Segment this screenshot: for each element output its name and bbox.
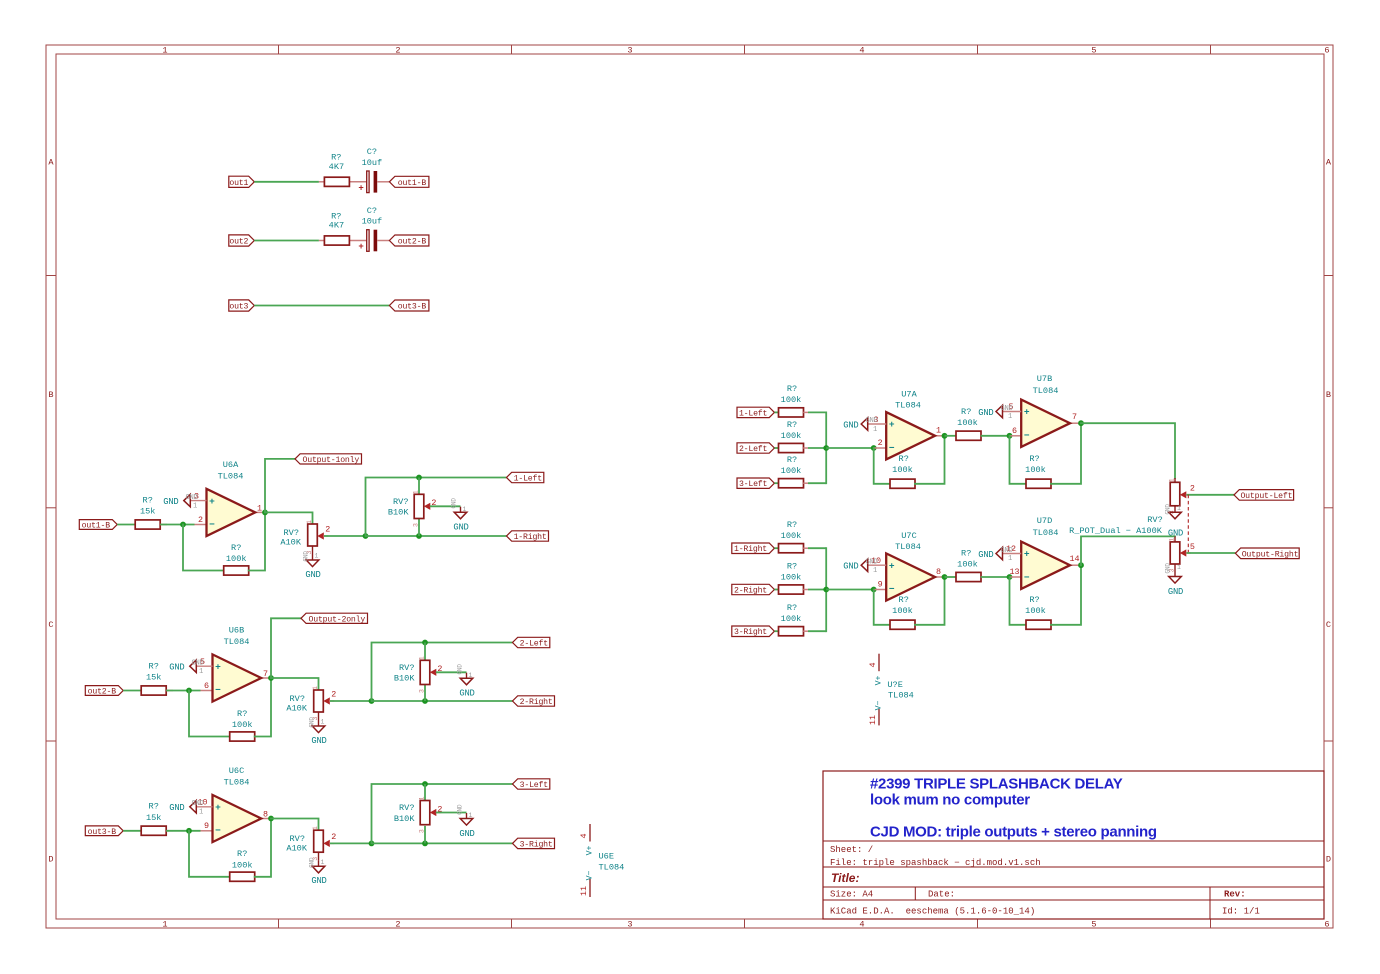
node 1-Left [737, 407, 774, 417]
svg-text:GND: GND [459, 689, 474, 699]
svg-text:−: − [215, 685, 221, 696]
node 3-Right [513, 838, 555, 848]
svg-text:Output-Right: Output-Right [1242, 549, 1299, 559]
node out2-B [389, 235, 429, 246]
svg-text:R?: R? [237, 709, 247, 719]
resistor R? 100k (1-Left input) [779, 384, 809, 417]
svg-text:B10K: B10K [394, 674, 415, 684]
potentiometer RV? B10K (U6A) [388, 478, 437, 537]
svg-text:GND: GND [457, 664, 464, 675]
svg-text:A: A [1326, 158, 1332, 168]
svg-text:GND: GND [311, 876, 326, 886]
svg-text:1: 1 [873, 426, 877, 434]
svg-text:100k: 100k [892, 465, 913, 475]
svg-text:GND: GND [186, 494, 198, 502]
svg-text:1-Right: 1-Right [734, 544, 767, 554]
wire [254, 181, 319, 183]
svg-text:2: 2 [395, 920, 400, 930]
wire [915, 577, 945, 625]
svg-text:GND: GND [1168, 587, 1183, 597]
svg-text:RV?: RV? [1147, 515, 1162, 525]
junction [369, 698, 375, 704]
svg-text:Rev:: Rev: [1224, 890, 1246, 900]
svg-text:GND: GND [192, 660, 204, 668]
resistor R? 15k (U6C input) [141, 802, 173, 836]
wire [271, 618, 301, 678]
wire [265, 459, 295, 513]
wire [425, 642, 513, 644]
wire [324, 535, 366, 537]
junction [416, 533, 422, 539]
svg-text:Output-2only: Output-2only [309, 614, 366, 624]
svg-text:D: D [48, 855, 53, 865]
svg-text:1: 1 [162, 46, 167, 56]
svg-text:GND: GND [843, 420, 858, 430]
svg-text:R?: R? [149, 802, 159, 812]
power GND at U7B + input [978, 405, 1021, 421]
svg-text:C: C [48, 620, 53, 630]
svg-text:−: − [215, 825, 221, 836]
wire [1187, 494, 1235, 496]
svg-text:+: + [358, 183, 363, 193]
wire [330, 700, 372, 702]
wire [945, 435, 957, 437]
wire [1081, 423, 1175, 478]
junction [942, 574, 948, 580]
node out3-B [85, 826, 123, 836]
op-amp U6B TL084 [200, 626, 271, 702]
svg-text:2-Right: 2-Right [734, 586, 767, 596]
svg-text:1: 1 [306, 520, 313, 524]
wire [425, 783, 513, 785]
wire [160, 524, 194, 526]
capacitor C? 10uf (row 1) [358, 147, 389, 193]
junction [1078, 562, 1084, 568]
svg-text:1: 1 [257, 503, 262, 513]
power GND below A10K (U6B) [309, 712, 327, 746]
node Output-Left [1234, 490, 1294, 501]
svg-text:GND: GND [453, 523, 468, 533]
svg-text:100k: 100k [957, 418, 978, 428]
svg-text:−: − [1024, 430, 1030, 441]
svg-text:GND: GND [451, 498, 458, 509]
wire [372, 643, 426, 702]
svg-text:TL084: TL084 [1033, 528, 1059, 538]
svg-text:RV?: RV? [284, 528, 299, 538]
svg-text:R?: R? [237, 849, 247, 859]
svg-text:6: 6 [1324, 920, 1329, 930]
potentiometer RV? A10K (U6A) [280, 520, 330, 555]
svg-text:1: 1 [413, 490, 420, 494]
svg-text:TL084: TL084 [224, 637, 250, 647]
svg-text:100k: 100k [226, 554, 247, 564]
svg-text:#2399 TRIPLE SPLASHBACK DELAY: #2399 TRIPLE SPLASHBACK DELAY [870, 776, 1123, 793]
svg-text:R?: R? [231, 543, 241, 553]
op-amp U7C TL084 [871, 531, 945, 601]
wire [808, 589, 826, 591]
svg-text:GND: GND [305, 570, 320, 580]
svg-text:9: 9 [878, 580, 883, 590]
wire [808, 630, 826, 632]
potentiometer RV? A10K (U6C) [286, 826, 336, 861]
svg-text:1: 1 [419, 796, 426, 800]
junction [871, 587, 877, 593]
svg-text:5: 5 [1091, 920, 1096, 930]
power GND below pot gang 2 [1165, 563, 1184, 597]
wire [117, 524, 135, 526]
svg-text:3: 3 [413, 523, 420, 527]
wire [808, 547, 826, 549]
svg-text:GND: GND [978, 550, 993, 560]
resistor R? 100k (U6B feedback) [230, 709, 255, 741]
svg-text:3-Left: 3-Left [739, 479, 768, 489]
svg-text:4: 4 [579, 833, 589, 838]
svg-text:out3-B: out3-B [88, 828, 117, 837]
svg-text:1: 1 [873, 567, 877, 575]
op-amp power unit U6E TL084 [579, 824, 624, 897]
svg-text:GND: GND [978, 408, 993, 418]
svg-text:RV?: RV? [290, 694, 305, 704]
svg-text:R?: R? [961, 407, 971, 417]
svg-text:2-Left: 2-Left [520, 639, 549, 649]
svg-text:R?: R? [787, 420, 797, 430]
svg-text:TL084: TL084 [599, 862, 625, 872]
svg-text:Id: 1/1: Id: 1/1 [1222, 907, 1260, 917]
wire [775, 589, 779, 591]
svg-text:+: + [1024, 407, 1030, 418]
wire [366, 478, 420, 537]
wire [1051, 423, 1081, 484]
power GND at U6A + input [163, 494, 206, 511]
wire [255, 678, 271, 737]
svg-text:U?E: U?E [887, 680, 902, 690]
wire [874, 448, 890, 484]
svg-text:100k: 100k [892, 606, 913, 616]
svg-text:V−: V− [875, 701, 884, 711]
svg-text:2: 2 [395, 46, 400, 56]
svg-text:Title:: Title: [831, 871, 859, 885]
svg-text:GND: GND [866, 559, 878, 567]
svg-text:out2: out2 [229, 238, 248, 247]
svg-text:GND: GND [311, 736, 326, 746]
svg-text:A10K: A10K [280, 537, 301, 547]
svg-text:Date:: Date: [928, 890, 955, 900]
svg-text:C?: C? [367, 206, 377, 216]
svg-text:100k: 100k [232, 860, 253, 870]
svg-text:A: A [48, 158, 54, 168]
wire [775, 447, 779, 449]
svg-text:TL084: TL084 [895, 401, 921, 411]
wire [1051, 565, 1081, 625]
svg-text:+: + [889, 419, 895, 430]
svg-text:7: 7 [1072, 412, 1077, 422]
svg-text:B10K: B10K [388, 508, 409, 518]
svg-text:R?: R? [1029, 595, 1039, 605]
wire [430, 505, 461, 507]
svg-text:1: 1 [315, 553, 319, 560]
svg-text:1-Right: 1-Right [514, 532, 547, 542]
svg-text:GND: GND [1165, 504, 1172, 515]
svg-text:TL084: TL084 [888, 690, 914, 700]
svg-text:1: 1 [1008, 555, 1012, 563]
svg-text:R?: R? [149, 661, 159, 671]
op-amp U7B TL084 [1008, 374, 1081, 447]
wire [255, 819, 271, 877]
wire [271, 678, 319, 690]
wire [981, 576, 1010, 578]
wire [915, 436, 945, 484]
svg-text:Size: A4: Size: A4 [830, 890, 873, 900]
wire [372, 842, 513, 844]
svg-text:CJD MOD: triple outputs + ster: CJD MOD: triple outputs + stereo panning [870, 824, 1157, 841]
svg-text:GND: GND [459, 829, 474, 839]
junction [363, 533, 369, 539]
svg-text:1: 1 [463, 506, 467, 513]
svg-text:7: 7 [263, 669, 268, 679]
svg-text:3: 3 [419, 829, 426, 833]
svg-text:GND: GND [843, 562, 858, 572]
junction [369, 841, 375, 847]
svg-text:100k: 100k [1025, 465, 1046, 475]
op-amp U7D TL084 [1006, 516, 1081, 589]
power GND at U7A + input [843, 417, 886, 434]
svg-text:2: 2 [1190, 483, 1195, 493]
resistor R? 15k (U6A input) [135, 495, 167, 529]
svg-text:100k: 100k [781, 431, 802, 441]
svg-text:100k: 100k [781, 395, 802, 405]
svg-text:1-Left: 1-Left [739, 408, 768, 418]
svg-text:V+: V+ [586, 846, 595, 856]
svg-text:1: 1 [199, 668, 203, 676]
svg-text:U6E: U6E [599, 852, 614, 862]
junction [422, 781, 428, 787]
svg-text:1: 1 [1008, 413, 1012, 421]
svg-text:1: 1 [312, 826, 319, 830]
svg-text:2: 2 [325, 524, 330, 534]
dashed gang link [1187, 495, 1189, 553]
svg-text:4: 4 [859, 46, 864, 56]
wire [808, 482, 826, 484]
svg-text:GND: GND [303, 551, 310, 562]
wire [808, 447, 826, 449]
power GND below A10K (U6A) [303, 546, 321, 580]
wire [775, 411, 779, 413]
resistor R? 100k (1-Right input) [779, 520, 809, 553]
svg-text:KiCad E.D.A. eeschema (5.1.6-: KiCad E.D.A. eeschema (5.1.6-0-10_14) [830, 907, 1035, 917]
potentiometer RV? B10K (U6C) [394, 784, 443, 843]
svg-text:100k: 100k [781, 614, 802, 624]
svg-text:+: + [215, 661, 221, 672]
svg-text:+: + [215, 802, 221, 813]
svg-text:9: 9 [204, 821, 209, 831]
resistor R? 100k (3-Left input) [779, 455, 809, 488]
svg-text:2: 2 [198, 515, 203, 525]
svg-text:out3: out3 [229, 303, 248, 312]
junction [268, 816, 274, 822]
svg-text:2: 2 [878, 438, 883, 448]
svg-text:4: 4 [859, 920, 864, 930]
svg-text:U6B: U6B [229, 626, 244, 636]
wire [254, 305, 389, 307]
wire [826, 589, 874, 591]
wire [265, 512, 313, 524]
potentiometer RV? R_POT_Dual A100K (gang 1) [1169, 478, 1195, 514]
svg-text:1: 1 [312, 686, 319, 690]
svg-text:1: 1 [199, 809, 203, 817]
node 2-Left [737, 443, 774, 453]
svg-text:R?: R? [787, 520, 797, 530]
op-amp U6A TL084 [194, 460, 265, 536]
svg-text:1: 1 [162, 920, 167, 930]
junction [823, 445, 829, 451]
junction [422, 841, 428, 847]
op-amp U6C TL084 [197, 766, 271, 842]
svg-text:6: 6 [1324, 46, 1329, 56]
potentiometer RV? R_POT_Dual A100K (gang 2) [1169, 536, 1195, 572]
svg-text:R?: R? [787, 384, 797, 394]
svg-text:1: 1 [936, 426, 941, 436]
wire [254, 240, 319, 242]
wire [271, 819, 319, 831]
node 2-Right [513, 696, 555, 706]
junction [1007, 433, 1013, 439]
junction [180, 522, 186, 528]
svg-text:1: 1 [469, 812, 473, 819]
svg-text:10uf: 10uf [362, 158, 383, 168]
junction [942, 433, 948, 439]
svg-text:1: 1 [1177, 505, 1181, 512]
junction [823, 587, 829, 593]
svg-text:File: triple spashback − cjd.m: File: triple spashback − cjd.mod.v1.sch [830, 858, 1041, 868]
svg-text:−: − [889, 442, 895, 453]
svg-text:R_POT_Dual − A100K: R_POT_Dual − A100K [1069, 526, 1163, 536]
junction [871, 445, 877, 451]
resistor R? 100k (U7A-U7B series) [956, 407, 981, 440]
wire [166, 830, 200, 832]
svg-text:1: 1 [321, 719, 325, 726]
wire [330, 842, 372, 844]
svg-text:2: 2 [331, 832, 336, 842]
svg-text:look mum no computer: look mum no computer [870, 792, 1030, 809]
svg-text:A10K: A10K [286, 703, 307, 713]
wire [825, 548, 827, 631]
node out1-B [389, 176, 429, 187]
svg-text:R?: R? [787, 455, 797, 465]
resistor R? 100k (2-Left input) [779, 420, 809, 453]
svg-text:RV?: RV? [290, 834, 305, 844]
svg-text:1: 1 [469, 672, 473, 679]
wire [808, 411, 826, 413]
wire [874, 590, 890, 625]
svg-text:1: 1 [1177, 564, 1181, 571]
capacitor C? 10uf (row 2) [358, 206, 389, 252]
resistor R? 100k (U7A feedback) [890, 454, 915, 488]
node 1-Right [732, 543, 775, 554]
svg-text:+: + [889, 560, 895, 571]
svg-text:2-Left: 2-Left [739, 444, 768, 454]
svg-text:5: 5 [1190, 542, 1195, 552]
wire [189, 831, 230, 877]
svg-text:8: 8 [263, 810, 268, 820]
resistor R? 100k (U7C-U7D series) [956, 549, 981, 582]
svg-text:100k: 100k [781, 572, 802, 582]
power GND at B10K wiper (U6A) [451, 498, 469, 533]
svg-text:1: 1 [193, 502, 197, 510]
node out2 [229, 235, 255, 246]
svg-text:5: 5 [1091, 46, 1096, 56]
wire [1010, 436, 1027, 484]
svg-text:out3-B: out3-B [398, 303, 427, 312]
svg-text:C?: C? [367, 147, 377, 157]
svg-text:4K7: 4K7 [329, 162, 344, 172]
svg-text:TL084: TL084 [895, 542, 921, 552]
wire [123, 690, 141, 692]
wire [189, 691, 230, 737]
svg-text:TL084: TL084 [218, 472, 244, 482]
svg-text:Output-1only: Output-1only [303, 455, 360, 465]
svg-text:GND: GND [309, 717, 316, 728]
node out2-B [85, 686, 123, 696]
resistor R? 15k (U6B input) [141, 661, 173, 695]
svg-text:GND: GND [309, 857, 316, 868]
svg-text:B: B [48, 390, 53, 400]
svg-text:3: 3 [627, 920, 632, 930]
node 3-Left [513, 779, 550, 789]
wire [1010, 577, 1027, 625]
svg-text:out2-B: out2-B [398, 238, 427, 247]
svg-text:14: 14 [1069, 554, 1079, 564]
svg-text:GND: GND [192, 800, 204, 808]
svg-text:U6A: U6A [223, 460, 239, 470]
svg-text:3-Right: 3-Right [734, 627, 767, 637]
svg-text:GND: GND [1001, 547, 1013, 555]
svg-text:A10K: A10K [286, 844, 307, 854]
svg-text:3-Right: 3-Right [520, 839, 553, 849]
wire [436, 812, 467, 814]
wire [825, 412, 827, 483]
resistor R? 4K7 (row 1) [319, 153, 367, 187]
power GND at B10K wiper (U6C) [457, 804, 475, 839]
wire [775, 630, 779, 632]
svg-text:100k: 100k [781, 466, 802, 476]
junction [422, 698, 428, 704]
svg-text:100k: 100k [781, 531, 802, 541]
svg-text:R?: R? [787, 603, 797, 613]
svg-text:U7B: U7B [1037, 374, 1052, 384]
junction [186, 688, 192, 694]
wire [183, 525, 224, 571]
wire [1081, 536, 1175, 565]
svg-text:U6C: U6C [229, 766, 244, 776]
svg-text:4: 4 [868, 662, 878, 667]
svg-text:out1-B: out1-B [398, 179, 427, 188]
potentiometer RV? B10K (U6B) [394, 643, 443, 702]
svg-text:1: 1 [321, 859, 325, 866]
junction [268, 675, 274, 681]
node out1 [229, 176, 255, 187]
svg-text:11: 11 [868, 715, 878, 725]
resistor R? 100k (3-Right input) [779, 603, 809, 636]
svg-text:B10K: B10K [394, 814, 415, 824]
power GND at U7C + input [843, 559, 886, 576]
svg-text:−: − [209, 519, 215, 530]
svg-text:1: 1 [1169, 478, 1176, 482]
junction [422, 640, 428, 646]
node 1-Right [507, 531, 549, 541]
node out1-B [79, 520, 117, 530]
power GND at U6B + input [169, 660, 212, 677]
wire [1187, 552, 1236, 554]
